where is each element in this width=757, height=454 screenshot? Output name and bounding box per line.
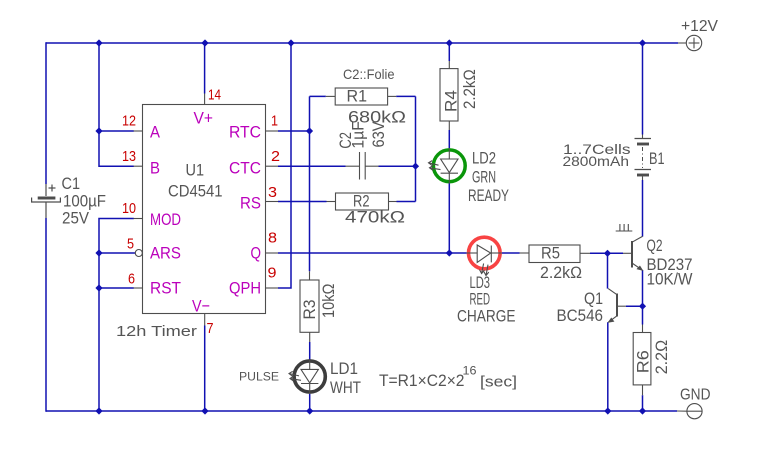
wire battery bottom to Q2 collector — [642, 180, 644, 237]
wire left vertical from +12V rail to C1 — [45, 42, 47, 184]
wire battery top from rail — [642, 43, 644, 135]
svg-text:3: 3 — [268, 184, 277, 201]
wire pin 12 A branch — [99, 130, 134, 132]
wire C2 right to vertical — [379, 165, 416, 167]
wire pin8 Q to LD3 — [278, 252, 467, 254]
wire ARS branch — [99, 252, 135, 254]
svg-text:13: 13 — [122, 148, 136, 165]
junction GND rail / V- pin7 — [201, 407, 208, 414]
wire Q1 base to R6 top node — [626, 305, 643, 307]
wire pin3 RS to R2 — [278, 201, 327, 203]
capacitor C1 — [32, 184, 61, 218]
resistor R3 — [300, 271, 319, 342]
svg-text:V+: V+ — [194, 108, 214, 127]
svg-text:Q2: Q2 — [647, 237, 663, 255]
svg-text:63V: 63V — [370, 122, 388, 148]
svg-text:2.2kΩ: 2.2kΩ — [540, 264, 582, 282]
svg-text:2.2Ω: 2.2Ω — [653, 340, 671, 374]
svg-text:470kΩ: 470kΩ — [345, 209, 405, 227]
svg-text:2: 2 — [271, 148, 280, 165]
pin 1 stub — [266, 130, 279, 132]
wire pin 14 V+ from rail — [204, 43, 206, 94]
battery B1 — [635, 135, 652, 181]
junction LD2 / Q output line — [446, 249, 453, 256]
junction Q2 emitter / Q1 base / R6 — [639, 303, 646, 310]
wire R4 top from rail — [448, 43, 450, 61]
svg-text:1µF: 1µF — [349, 121, 367, 149]
svg-text:10K/W: 10K/W — [647, 270, 693, 288]
heatsink symbol for Q2 — [616, 224, 633, 231]
resistor R5 — [520, 245, 591, 263]
resistor R4 — [440, 61, 458, 130]
junction RTC / R1 / R3 node — [306, 127, 313, 134]
junction GND rail / RST riser — [95, 407, 102, 414]
svg-text:Q1: Q1 — [584, 290, 603, 308]
svg-text:R6: R6 — [633, 350, 652, 373]
wire bottom GND rail — [46, 410, 677, 412]
svg-text:C2::Folie: C2::Folie — [343, 66, 395, 82]
svg-text:LD2: LD2 — [472, 149, 496, 167]
svg-text:CTC: CTC — [229, 158, 261, 177]
svg-text:R5: R5 — [541, 244, 560, 263]
junction RST node — [95, 284, 102, 291]
svg-text:ARS: ARS — [150, 244, 181, 263]
svg-text:1: 1 — [271, 112, 278, 129]
svg-text:7: 7 — [207, 320, 214, 337]
junction V+ rail / R4 branch — [446, 39, 453, 46]
wire Q2 emitter to R6 — [642, 270, 644, 325]
svg-text:10: 10 — [122, 200, 136, 217]
svg-text:R4: R4 — [441, 90, 460, 112]
wire RST branch — [99, 287, 134, 289]
svg-text:10kΩ: 10kΩ — [320, 284, 338, 319]
svg-text:QPH: QPH — [229, 279, 261, 298]
svg-text:14: 14 — [208, 87, 221, 104]
junction pin12 A node — [95, 127, 102, 134]
wire R2 right to vertical — [397, 201, 416, 203]
wire R1 left lead — [310, 95, 326, 97]
svg-text:12h Timer: 12h Timer — [116, 323, 197, 340]
wire R1 right to vertical — [396, 95, 415, 97]
pin 9 stub — [266, 287, 279, 289]
pin 13 stub — [134, 165, 143, 167]
pin 14 stub — [204, 94, 206, 105]
wire top +12V rail — [46, 42, 678, 44]
junction C2 right / R1-R2 vertical — [412, 163, 419, 170]
svg-text:CD4541: CD4541 — [168, 181, 223, 200]
GND symbol — [677, 404, 702, 419]
svg-text:RST: RST — [150, 279, 181, 298]
junction V+ rail / QPH riser — [287, 39, 294, 46]
wire C1 bottom to GND rail — [45, 218, 47, 412]
wire Q2 base node down to Q1 collector — [607, 253, 609, 288]
svg-text:[sec]: [sec] — [480, 374, 517, 390]
svg-text:+12V: +12V — [681, 18, 718, 35]
svg-text:Q: Q — [251, 244, 262, 263]
svg-text:5: 5 — [127, 235, 134, 252]
svg-text:R1: R1 — [347, 86, 368, 105]
junction V+ rail / battery B1 — [639, 39, 646, 46]
svg-text:MOD: MOD — [150, 210, 181, 229]
svg-text:RED: RED — [470, 291, 491, 309]
junction ARS node — [95, 249, 102, 256]
resistor R1 — [326, 88, 396, 105]
svg-text:GND: GND — [680, 387, 711, 404]
wire R5 right to Q2 base node — [590, 252, 623, 254]
svg-text:V−: V− — [192, 296, 210, 315]
svg-text:C1: C1 — [62, 174, 81, 193]
pin 5 ARS inverter bubble — [135, 250, 142, 257]
svg-text:9: 9 — [268, 265, 277, 282]
IC U1 CD4541 body — [143, 105, 266, 314]
junction R5 / Q2 base / Q1 collector — [604, 250, 611, 257]
svg-text:A: A — [150, 123, 161, 142]
resistor R6 — [633, 325, 651, 396]
LED LD1 white — [289, 360, 325, 394]
svg-text:BC546: BC546 — [557, 307, 604, 325]
wire QPH pin9 up to +12V rail — [278, 43, 291, 288]
wire pin1 RTC to node — [278, 130, 310, 132]
wire LD2 bottom to Q line — [448, 184, 450, 254]
transistor Q2 BD237 — [623, 236, 643, 270]
transistor Q1 BC546 — [608, 289, 626, 323]
wire vertical R1-R2 right side — [415, 96, 417, 201]
wire LD3 to R5 — [502, 252, 520, 254]
svg-text:LD3: LD3 — [470, 274, 491, 292]
svg-text:CHARGE: CHARGE — [457, 308, 516, 326]
wire R4 bottom to LD2 — [448, 130, 450, 148]
pin 10 stub — [134, 218, 143, 220]
svg-text:GRN: GRN — [472, 168, 496, 186]
pin 12 stub — [134, 130, 143, 132]
LED LD2 green — [429, 148, 466, 183]
svg-text:25V: 25V — [62, 209, 90, 228]
svg-text:2.2kΩ: 2.2kΩ — [461, 69, 479, 109]
svg-text:WHT: WHT — [330, 379, 361, 397]
svg-text:PULSE: PULSE — [239, 370, 279, 384]
svg-text:2800mAh: 2800mAh — [563, 153, 630, 169]
pin 2 stub — [266, 165, 279, 167]
svg-text:LD1: LD1 — [330, 360, 358, 378]
svg-text:T=R1×C2×2: T=R1×C2×2 — [379, 371, 465, 390]
wire R3 bottom to LD1 — [309, 342, 311, 360]
capacitor C2 — [346, 152, 379, 180]
svg-text:B: B — [150, 158, 160, 177]
svg-text:B1: B1 — [649, 150, 665, 168]
pin 3 stub — [266, 201, 279, 203]
junction GND rail / LD1 — [306, 407, 313, 414]
svg-text:RTC: RTC — [229, 123, 261, 142]
wire pin2 CTC to C2 — [278, 165, 346, 167]
wire vertical x99 MOD ARS RST to GND rail — [99, 219, 134, 412]
pin 6 stub — [134, 287, 143, 289]
wire pin 7 V- to GND rail — [204, 326, 206, 412]
pin 8 stub — [266, 252, 279, 254]
junction V+ rail / A-B branch — [95, 39, 102, 46]
svg-text:6: 6 — [128, 270, 135, 287]
svg-text:RS: RS — [240, 194, 261, 213]
svg-text:8: 8 — [268, 230, 277, 247]
wire R6 bottom to GND rail — [642, 395, 644, 411]
svg-text:16: 16 — [463, 365, 477, 377]
LED LD3 red — [467, 237, 502, 275]
svg-text:12: 12 — [122, 112, 136, 129]
svg-text:U1: U1 — [186, 161, 205, 180]
wire Q1 emitter down to GND rail — [607, 322, 609, 411]
wire vertical RTC/R1/R3 net — [309, 96, 311, 271]
resistor R2 — [327, 193, 397, 210]
svg-text:READY: READY — [468, 187, 509, 205]
junction GND rail / Q1 emitter — [604, 407, 611, 414]
+12V supply symbol — [678, 35, 702, 50]
junction V+ rail / pin14 — [201, 39, 208, 46]
junction GND rail / R6 — [639, 407, 646, 414]
pin 7 stub — [204, 314, 206, 326]
wire vertical x99 to pins A,B — [99, 43, 134, 166]
svg-text:R3: R3 — [300, 300, 319, 320]
wire LD1 bottom to GND rail — [309, 394, 311, 411]
